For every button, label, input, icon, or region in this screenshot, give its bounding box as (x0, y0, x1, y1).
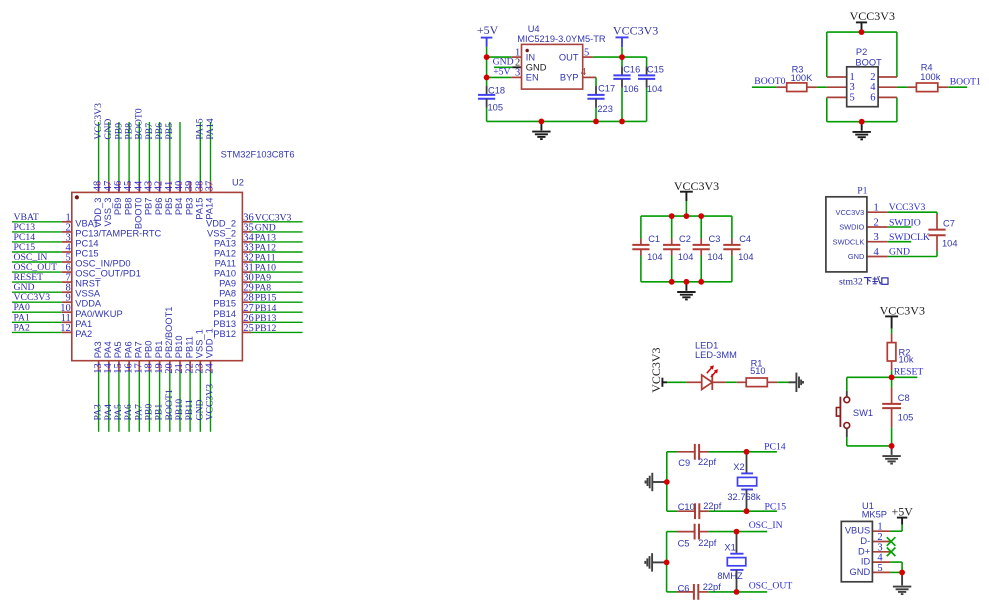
svg-text:C3: C3 (709, 234, 721, 244)
svg-text:2: 2 (874, 218, 879, 229)
svg-text:C18: C18 (488, 86, 505, 96)
svg-text:SW1: SW1 (853, 408, 873, 418)
svg-text:VBUS: VBUS (845, 526, 870, 536)
svg-text:PA11: PA11 (215, 259, 236, 269)
svg-text:PA7: PA7 (134, 341, 144, 358)
svg-text:C1: C1 (648, 234, 660, 244)
svg-text:PA3: PA3 (93, 341, 103, 358)
svg-text:PB13: PB13 (213, 319, 236, 329)
svg-text:BYP: BYP (560, 73, 579, 83)
svg-text:5: 5 (850, 92, 855, 103)
svg-text:VDDA: VDDA (75, 299, 102, 309)
svg-text:OSC_OUT/PD1: OSC_OUT/PD1 (75, 269, 141, 279)
svg-text:PC14: PC14 (75, 238, 98, 248)
svg-text:IN: IN (526, 52, 535, 62)
svg-text:C5: C5 (678, 539, 690, 549)
svg-text:100k: 100k (920, 72, 941, 82)
svg-text:+5V: +5V (493, 67, 510, 78)
svg-text:PA4: PA4 (103, 341, 113, 358)
svg-text:C16: C16 (623, 65, 640, 75)
svg-text:VCC3V3: VCC3V3 (836, 208, 865, 217)
svg-text:ID: ID (861, 557, 871, 567)
svg-text:VCC3V3: VCC3V3 (613, 24, 658, 38)
svg-text:U4: U4 (528, 24, 540, 34)
svg-text:12: 12 (60, 323, 71, 334)
svg-text:VDD_3: VDD_3 (93, 198, 103, 228)
svg-text:LED-3MM: LED-3MM (695, 350, 737, 360)
svg-text:3: 3 (515, 68, 520, 79)
svg-text:104: 104 (738, 252, 754, 262)
svg-text:GND: GND (526, 63, 547, 73)
svg-text:SWDIO: SWDIO (839, 223, 864, 232)
svg-text:PB4: PB4 (174, 198, 184, 216)
svg-text:104: 104 (942, 238, 958, 248)
svg-text:100K: 100K (791, 73, 814, 83)
svg-text:P1: P1 (857, 185, 867, 196)
svg-text:SWDCLK: SWDCLK (833, 237, 865, 246)
svg-text:C8: C8 (898, 393, 910, 403)
svg-text:C6: C6 (678, 583, 690, 593)
svg-text:OSC_IN: OSC_IN (749, 520, 783, 531)
svg-text:PB12: PB12 (213, 329, 236, 339)
svg-text:104: 104 (707, 252, 723, 262)
svg-text:C17: C17 (598, 84, 615, 94)
svg-text:PA13: PA13 (214, 238, 236, 248)
svg-text:PB3: PB3 (184, 198, 194, 216)
svg-text:VCC3V3: VCC3V3 (889, 202, 926, 213)
svg-text:C15: C15 (647, 65, 664, 75)
svg-text:32.768k: 32.768k (727, 492, 760, 502)
svg-text:223: 223 (597, 104, 613, 114)
svg-text:PB14: PB14 (213, 309, 236, 319)
svg-text:PB5: PB5 (164, 123, 175, 140)
svg-text:OSC_OUT: OSC_OUT (749, 581, 793, 592)
svg-text:PC15: PC15 (75, 249, 98, 259)
svg-text:PB11: PB11 (184, 336, 194, 358)
svg-text:MK5P: MK5P (862, 510, 887, 520)
svg-text:BOOT0: BOOT0 (134, 198, 144, 230)
svg-text:VCC3V3: VCC3V3 (880, 303, 925, 317)
svg-text:P2: P2 (856, 47, 867, 57)
svg-text:VSS_3: VSS_3 (103, 198, 113, 227)
svg-text:25: 25 (243, 323, 254, 334)
svg-text:3: 3 (874, 232, 879, 243)
svg-text:PA14: PA14 (205, 198, 215, 220)
svg-text:U2: U2 (232, 178, 244, 188)
svg-text:4: 4 (581, 67, 587, 78)
svg-text:C9: C9 (678, 458, 690, 468)
svg-text:GND: GND (850, 567, 871, 577)
svg-text:PB2/BOOT1: PB2/BOOT1 (164, 307, 174, 359)
svg-text:VCC3V3: VCC3V3 (850, 9, 895, 23)
svg-text:PA9: PA9 (219, 279, 236, 289)
svg-text:104: 104 (647, 84, 663, 94)
svg-text:BOOT0: BOOT0 (754, 76, 785, 87)
svg-text:GND: GND (889, 246, 910, 257)
svg-text:10k: 10k (899, 354, 914, 364)
svg-text:37: 37 (205, 181, 216, 192)
svg-text:PC15: PC15 (765, 502, 787, 513)
svg-text:PA14: PA14 (205, 118, 216, 139)
svg-text:24: 24 (205, 363, 216, 374)
svg-text:+5V: +5V (477, 23, 499, 37)
svg-text:C4: C4 (739, 234, 751, 244)
svg-text:EN: EN (526, 73, 539, 83)
svg-text:PB5: PB5 (164, 198, 174, 216)
svg-text:BOOT: BOOT (855, 57, 882, 67)
svg-text:OSC_IN/PD0: OSC_IN/PD0 (75, 259, 130, 269)
svg-text:5: 5 (877, 563, 882, 574)
svg-text:C2: C2 (679, 234, 691, 244)
svg-text:MIC5219-3.0YM5-TR: MIC5219-3.0YM5-TR (517, 34, 606, 44)
svg-text:PC13/TAMPER-RTC: PC13/TAMPER-RTC (75, 228, 161, 238)
svg-text:C7: C7 (943, 218, 955, 228)
svg-text:104: 104 (678, 252, 694, 262)
svg-text:PB1: PB1 (154, 341, 164, 359)
svg-text:6: 6 (870, 92, 875, 103)
svg-text:stm32: stm32 (839, 276, 863, 287)
svg-text:SWDIO: SWDIO (889, 217, 921, 228)
svg-text:PA1: PA1 (75, 319, 92, 329)
svg-text:PA6: PA6 (123, 341, 133, 358)
svg-text:PB12: PB12 (255, 323, 277, 334)
svg-text:PB10: PB10 (174, 335, 184, 358)
svg-text:BOOT1: BOOT1 (950, 76, 981, 87)
svg-text:PA5: PA5 (113, 341, 123, 358)
svg-text:STM32F103C8T6: STM32F103C8T6 (221, 150, 295, 160)
svg-text:PA0/WKUP: PA0/WKUP (75, 309, 122, 319)
svg-text:VCC3V3: VCC3V3 (205, 384, 216, 421)
svg-text:PB0: PB0 (144, 341, 154, 359)
svg-text:VCC3V3: VCC3V3 (649, 347, 663, 392)
svg-text:SWDCLK: SWDCLK (889, 232, 930, 243)
svg-text:PA12: PA12 (214, 249, 236, 259)
svg-text:VSS_2: VSS_2 (207, 228, 236, 238)
svg-text:PA10: PA10 (214, 269, 236, 279)
svg-text:22pf: 22pf (698, 538, 717, 548)
svg-text:4: 4 (874, 247, 880, 258)
svg-text:105: 105 (488, 103, 504, 113)
svg-text:22pf: 22pf (703, 501, 722, 511)
svg-text:22pf: 22pf (698, 457, 717, 467)
svg-text:RESET: RESET (894, 367, 924, 378)
svg-text:VDD_1: VDD_1 (205, 328, 215, 358)
svg-text:PB9: PB9 (113, 198, 123, 216)
svg-text:106: 106 (623, 84, 639, 94)
svg-text:NRST: NRST (75, 279, 101, 289)
svg-text:PB8: PB8 (123, 198, 133, 216)
svg-text:C10: C10 (678, 502, 695, 512)
svg-text:5: 5 (584, 47, 589, 58)
svg-text:1: 1 (874, 203, 879, 214)
svg-text:PA2: PA2 (75, 329, 92, 339)
svg-text:D-: D- (860, 536, 870, 546)
svg-text:PC14: PC14 (764, 441, 786, 452)
svg-text:104: 104 (647, 252, 663, 262)
svg-text:D+: D+ (858, 546, 870, 556)
svg-text:PA8: PA8 (219, 289, 236, 299)
svg-text:VSS_1: VSS_1 (195, 329, 205, 358)
svg-text:PB15: PB15 (213, 299, 236, 309)
svg-text:22pf: 22pf (703, 582, 722, 592)
svg-text:OUT: OUT (559, 52, 579, 62)
svg-text:X1: X1 (724, 542, 735, 552)
svg-text:PB7: PB7 (144, 198, 154, 216)
svg-text:+5V: +5V (891, 505, 913, 519)
svg-text:X2: X2 (733, 462, 744, 472)
svg-text:PA2: PA2 (14, 322, 30, 333)
svg-text:VSSA: VSSA (75, 289, 101, 299)
svg-text:510: 510 (750, 366, 766, 376)
svg-text:105: 105 (898, 413, 914, 423)
svg-text:GND: GND (848, 252, 864, 261)
svg-text:PA15: PA15 (195, 198, 205, 220)
svg-text:PB6: PB6 (154, 198, 164, 216)
svg-text:8MHZ: 8MHZ (717, 571, 743, 581)
